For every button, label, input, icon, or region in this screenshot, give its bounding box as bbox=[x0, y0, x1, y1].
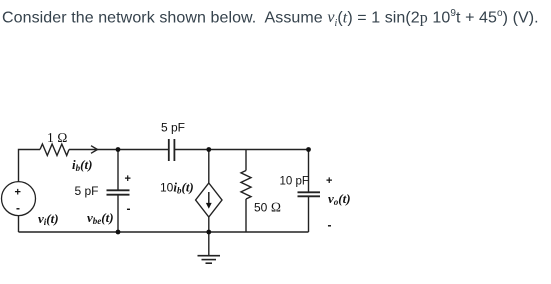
wire node A down to Cbe bbox=[117, 150, 119, 191]
wire Co to bottom rail bbox=[308, 197, 310, 233]
svg-text:vbe(t): vbe(t) bbox=[87, 210, 114, 226]
ground stem bbox=[208, 232, 210, 256]
node dot A top bbox=[116, 147, 121, 152]
bottom rail wire bbox=[19, 231, 309, 233]
svg-text:-: - bbox=[127, 202, 131, 216]
svg-text:5 pF: 5 pF bbox=[75, 184, 99, 198]
resistor R1 1 ohm bbox=[40, 144, 69, 156]
capacitor Cbe 5pF plates bbox=[107, 189, 130, 191]
svg-text:1 Ω: 1 Ω bbox=[47, 130, 68, 145]
svg-text:10 pF: 10 pF bbox=[280, 176, 309, 188]
resistor R2 50 ohm bbox=[241, 171, 251, 200]
svg-text:-: - bbox=[16, 201, 20, 215]
wire node B to Co bbox=[308, 150, 310, 193]
svg-text:+: + bbox=[15, 187, 21, 199]
dep source arrow shaft bbox=[208, 192, 210, 206]
wire C1 to node B bbox=[175, 149, 309, 151]
node dot ground bbox=[206, 230, 211, 235]
svg-text:5 pF: 5 pF bbox=[161, 121, 185, 135]
wire node B to dep source bbox=[208, 150, 210, 184]
ground bars bbox=[198, 255, 221, 257]
node dot B top bbox=[206, 147, 211, 152]
voltage source Vi circle bbox=[2, 182, 36, 216]
svg-text:+: + bbox=[326, 175, 332, 187]
capacitor Co 10pF plates bbox=[298, 191, 321, 193]
dep source arrowhead bbox=[206, 203, 212, 209]
wire dep source to ground node bbox=[208, 217, 210, 232]
svg-text:+: + bbox=[125, 173, 131, 185]
capacitor C1 5pF series plates bbox=[168, 139, 170, 161]
wire R2 to bottom rail bbox=[245, 199, 247, 232]
svg-text:10ib(t): 10ib(t) bbox=[160, 180, 194, 196]
svg-text:50 Ω: 50 Ω bbox=[254, 200, 281, 215]
wire source bottom bbox=[18, 216, 20, 232]
wire node A to C1 bbox=[118, 149, 169, 151]
svg-text:vi(t): vi(t) bbox=[38, 211, 59, 227]
wire top to R2 bbox=[245, 150, 247, 171]
wire Cbe to bottom rail bbox=[117, 195, 119, 232]
node dot A bottom bbox=[116, 230, 121, 235]
dependent source diamond 10ib bbox=[196, 183, 222, 217]
current arrow ib bbox=[91, 146, 98, 154]
wire top-left segment bbox=[19, 150, 41, 182]
node dot C top right bbox=[306, 147, 311, 152]
svg-text:ib(t): ib(t) bbox=[72, 157, 92, 173]
svg-text:vo(t): vo(t) bbox=[328, 191, 351, 207]
svg-text:-: - bbox=[328, 218, 332, 232]
wire resistor to node A bbox=[69, 149, 118, 151]
